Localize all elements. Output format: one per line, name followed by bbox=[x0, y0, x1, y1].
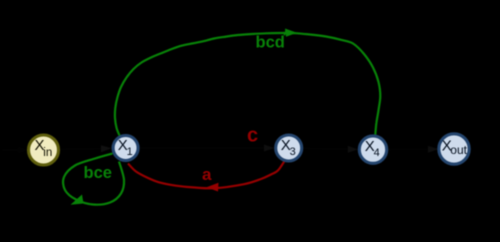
label bce bbox=[84, 164, 112, 182]
label a bbox=[202, 165, 212, 184]
svg-text:bcd: bcd bbox=[256, 34, 285, 52]
svg-text:in: in bbox=[43, 147, 52, 159]
edge X1->X4 (green arc) bbox=[115, 33, 380, 136]
node X3 bbox=[276, 135, 302, 161]
svg-text:a: a bbox=[202, 165, 212, 184]
svg-text:4: 4 bbox=[374, 147, 380, 159]
node X4 bbox=[359, 136, 386, 163]
arrowhead on self-loop bbox=[71, 195, 84, 205]
edge X4->Xout (black, invisible on black background) bbox=[388, 146, 438, 153]
arrowhead on red arc bbox=[207, 183, 219, 192]
node Xin bbox=[29, 135, 59, 165]
arrowhead on green arc bbox=[285, 29, 297, 37]
node X1 bbox=[113, 136, 138, 161]
svg-text:c: c bbox=[247, 125, 258, 147]
edge X3->X4 (black, invisible on black background) bbox=[303, 146, 358, 153]
svg-text:out: out bbox=[450, 143, 467, 157]
edge Xin->X1 (black, invisible on black background) bbox=[59, 145, 112, 152]
edge X1->X3 (black, invisible on black background) bbox=[140, 145, 275, 152]
svg-text:3: 3 bbox=[290, 146, 296, 158]
label bcd* bbox=[256, 28, 290, 52]
node Xout bbox=[439, 134, 469, 164]
svg-text:bce: bce bbox=[84, 164, 112, 182]
start arrow into Xin (black, invisible on black background) bbox=[2, 147, 28, 154]
edge X3->X1 (red arc) bbox=[128, 161, 285, 188]
svg-text:1: 1 bbox=[127, 146, 133, 158]
label c bbox=[247, 125, 258, 147]
svg-text:*: * bbox=[283, 28, 289, 43]
self-loop at X1 (green) bbox=[63, 154, 124, 205]
